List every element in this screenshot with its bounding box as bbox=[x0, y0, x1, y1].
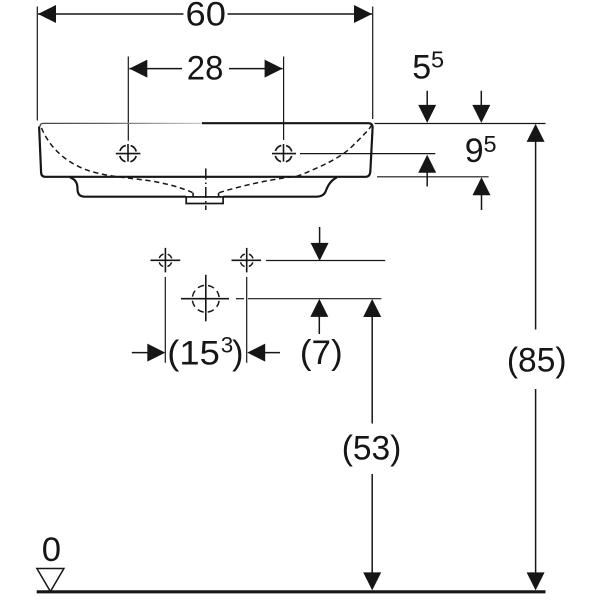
mounting hole left dashed circle bbox=[159, 254, 172, 267]
drain outlet cross horizontal bbox=[181, 298, 229, 300]
dim 5/5 up arrow stem bbox=[426, 171, 428, 186]
dim (15/3) arrow left stem bbox=[132, 352, 149, 354]
dimension 28 extension line left bbox=[127, 57, 129, 141]
dimension 60 arrow left bbox=[38, 5, 56, 23]
dim (15/3) arrow left bbox=[147, 344, 165, 362]
mounting hole right dashed circle bbox=[240, 254, 253, 267]
svg-text:(7): (7) bbox=[300, 334, 343, 372]
dimension 60 line right bbox=[228, 13, 373, 15]
dimension 60 extension line right bbox=[372, 7, 374, 120]
svg-text:5: 5 bbox=[412, 48, 431, 86]
drain outlet cross vertical bbox=[205, 275, 207, 322]
tap hole 1 cross horizontal bbox=[116, 153, 141, 155]
dimension 60 line left bbox=[38, 13, 184, 15]
mounting hole right cross vertical bbox=[246, 248, 248, 273]
svg-text:5: 5 bbox=[431, 47, 444, 73]
dim (15/3) arrow right bbox=[247, 344, 265, 362]
reference line drain plane bbox=[248, 298, 381, 300]
svg-text:0: 0 bbox=[42, 531, 61, 569]
svg-text:(53): (53) bbox=[342, 429, 402, 467]
dimension 28 extension line right bbox=[283, 57, 285, 141]
dim (7) up arrow bbox=[310, 299, 328, 317]
basin outline thick: top right, right edge, bottom, left edge bbox=[39, 123, 373, 177]
reference line mounting holes bbox=[266, 260, 385, 262]
mounting hole left cross horizontal bbox=[151, 259, 181, 261]
dim 5/5 down arrow stem bbox=[426, 91, 428, 106]
basin centerline dash-dot bbox=[205, 169, 207, 211]
bowl hidden dashed curve right bbox=[219, 125, 372, 193]
dim (53) line lower bbox=[371, 474, 373, 574]
svg-text:): ) bbox=[232, 334, 243, 372]
dim (53) up arrow bbox=[363, 299, 381, 317]
drain flange bbox=[186, 197, 223, 204]
drain inner wall right bbox=[218, 193, 220, 198]
extension line mounting hole right bbox=[246, 277, 248, 363]
svg-text:(15: (15 bbox=[167, 334, 220, 372]
reference line basin top right bbox=[375, 123, 546, 125]
dim (53) line upper bbox=[371, 316, 373, 424]
bowl hidden dashed curve left bbox=[42, 128, 193, 193]
extension line mounting hole left bbox=[164, 277, 166, 363]
ground line bbox=[37, 590, 546, 593]
reference line drain plane dash bbox=[236, 298, 244, 300]
dimension 28 arrow right bbox=[265, 60, 283, 78]
dim (7) down arrow bbox=[311, 243, 329, 261]
svg-text:(85): (85) bbox=[507, 341, 567, 379]
tap hole 2 cross horizontal bbox=[272, 153, 296, 155]
dim (85) up arrow bbox=[527, 124, 545, 142]
svg-text:5: 5 bbox=[484, 131, 497, 157]
dimension 28 line right bbox=[229, 68, 283, 70]
tap hole 2 cross vertical bbox=[283, 144, 285, 162]
datum triangle bbox=[37, 569, 64, 592]
dim 9/5 up arrow stem bbox=[481, 194, 483, 210]
dim (15/3) arrow right stem bbox=[264, 352, 280, 354]
svg-text:60: 60 bbox=[186, 0, 226, 34]
dim 5/5 down arrow bbox=[418, 105, 436, 123]
drain outlet dashed circle bbox=[192, 285, 219, 312]
basin apron left step bbox=[70, 178, 186, 197]
dim 9/5 down arrow stem bbox=[480, 91, 482, 106]
reference line tap hole plane bbox=[300, 153, 435, 155]
drain inner wall left bbox=[192, 193, 194, 198]
svg-text:9: 9 bbox=[465, 132, 484, 170]
dim (85) down arrow bbox=[527, 572, 545, 590]
dimension 28 line left bbox=[129, 68, 182, 70]
reference line basin bottom right bbox=[377, 176, 489, 178]
tap hole 2 dashed circle bbox=[275, 145, 292, 162]
mounting hole left cross vertical bbox=[164, 248, 166, 273]
dim 5/5 up arrow bbox=[418, 155, 436, 173]
basin top edge thin left part bbox=[40, 123, 202, 126]
dim 9/5 up arrow bbox=[473, 177, 491, 195]
dimension 28 arrow left bbox=[129, 60, 147, 78]
dim (53) down arrow bbox=[363, 572, 381, 590]
dim (85) line lower bbox=[535, 389, 537, 574]
basin apron right step bbox=[223, 177, 336, 196]
tap hole 1 dashed circle bbox=[120, 145, 137, 162]
mounting hole right cross horizontal bbox=[232, 259, 262, 261]
dim (85) line upper bbox=[535, 141, 537, 330]
dim (7) up arrow stem bbox=[318, 316, 320, 335]
tap hole 1 cross vertical bbox=[127, 144, 129, 162]
dimension 60 extension line left bbox=[36, 7, 38, 121]
dimension 60 arrow right bbox=[354, 5, 372, 23]
svg-text:28: 28 bbox=[187, 49, 224, 87]
dim (7) down arrow stem bbox=[319, 227, 321, 245]
dim 9/5 down arrow bbox=[472, 105, 490, 123]
